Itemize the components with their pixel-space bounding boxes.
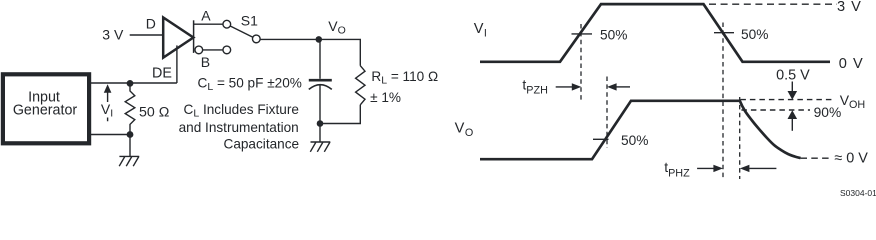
svg-text:Generator: Generator — [13, 102, 78, 118]
50% tick falling V_I — [714, 32, 734, 34]
svg-text:S0304-01: S0304-01 — [840, 188, 876, 196]
svg-text:50%: 50% — [741, 27, 768, 42]
Input Generator label — [13, 89, 78, 118]
svg-text:VO: VO — [328, 18, 346, 37]
switch S1 contact on bar (B side) — [195, 46, 203, 54]
svg-text:tPZH: tPZH — [522, 76, 548, 96]
switch S1 blade — [230, 26, 253, 37]
svg-text:50 Ω: 50 Ω — [139, 104, 169, 120]
input generator box — [3, 74, 89, 143]
wire pole to RL corner — [260, 39, 360, 65]
V_I waveform — [480, 4, 830, 62]
svg-text:90%: 90% — [814, 105, 842, 120]
V_I arrow — [104, 84, 112, 121]
wire stub B — [203, 49, 223, 51]
V_O waveform — [480, 101, 801, 159]
dashed vertical t_PHZ right — [739, 97, 741, 179]
svg-text:Capacitance: Capacitance — [224, 136, 300, 151]
wire to ground — [129, 135, 131, 157]
svg-text:CL Includes Fixture: CL Includes Fixture — [184, 102, 299, 120]
svg-text:A: A — [201, 8, 211, 24]
svg-text:RL = 110 Ω: RL = 110 Ω — [371, 69, 438, 87]
svg-text:3 V: 3 V — [102, 27, 124, 43]
dashed vertical t_PZH left — [580, 24, 582, 100]
wire bottom from generator — [91, 134, 130, 136]
wire R_L bottom return — [322, 105, 360, 124]
ground (left) — [119, 156, 139, 166]
capacitor C_L — [309, 80, 332, 89]
svg-text:DE: DE — [152, 66, 172, 82]
resistor R_L zigzag — [356, 66, 365, 105]
dashed vertical t_PHZ left — [722, 23, 724, 180]
90% dashed level — [741, 109, 810, 111]
0.5 V up arrow — [788, 110, 798, 131]
dashed vertical t_PZH right — [606, 77, 608, 149]
svg-text:VI: VI — [474, 21, 487, 40]
wire capacitor top lead — [319, 39, 321, 78]
svg-text:B: B — [201, 54, 210, 70]
node junction dot bottom — [317, 120, 324, 127]
wire capacitor bottom lead to ground — [319, 85, 321, 142]
approx 0 V dashed level — [801, 157, 831, 159]
3 V dashed level — [709, 3, 837, 5]
svg-text:VI: VI — [101, 101, 113, 120]
wire stub A — [194, 23, 223, 25]
0.5 V down arrow — [788, 82, 798, 100]
t_PZH left arrow — [556, 83, 582, 90]
svg-text:0 V: 0 V — [839, 56, 864, 72]
svg-text:VO: VO — [455, 120, 474, 139]
switch S1 throw B contact — [223, 46, 231, 54]
node junction dot bottom of 50ohm — [127, 131, 134, 138]
node V_O junction dot — [316, 36, 323, 43]
svg-text:≈ 0 V: ≈ 0 V — [834, 151, 868, 167]
t_PHZ left arrow — [697, 165, 723, 172]
svg-text:D: D — [146, 15, 156, 31]
node junction dot top of 50ohm — [127, 80, 134, 87]
wire D input — [130, 34, 163, 36]
V_OH dashed level — [740, 99, 835, 101]
svg-text:50%: 50% — [600, 27, 627, 42]
svg-text:and Instrumentation: and Instrumentation — [179, 120, 299, 135]
svg-text:50%: 50% — [621, 133, 648, 148]
t_PZH right arrow — [607, 83, 630, 90]
svg-text:CL = 50 pF ±20%: CL = 50 pF ±20% — [198, 76, 302, 94]
buffer U1 triangle — [163, 17, 193, 57]
svg-text:S1: S1 — [241, 13, 258, 29]
svg-text:tPHZ: tPHZ — [664, 159, 690, 179]
switch S1 throw A contact — [223, 20, 231, 28]
svg-text:± 1%: ± 1% — [370, 90, 401, 105]
50% tick rising V_I — [572, 33, 593, 35]
50% tick rising V_O — [593, 138, 609, 140]
resistor R 50 ohm — [125, 83, 135, 134]
wire DE pin — [176, 45, 178, 83]
svg-text:VOH: VOH — [840, 92, 866, 111]
svg-text:0.5 V: 0.5 V — [776, 68, 810, 84]
switch S1 pole contact — [252, 35, 260, 43]
ground (middle) — [310, 142, 330, 152]
svg-text:3 V: 3 V — [837, 0, 862, 15]
wire top from generator — [91, 82, 177, 84]
wire output bar — [193, 20, 195, 53]
t_PHZ right arrow — [740, 165, 777, 172]
